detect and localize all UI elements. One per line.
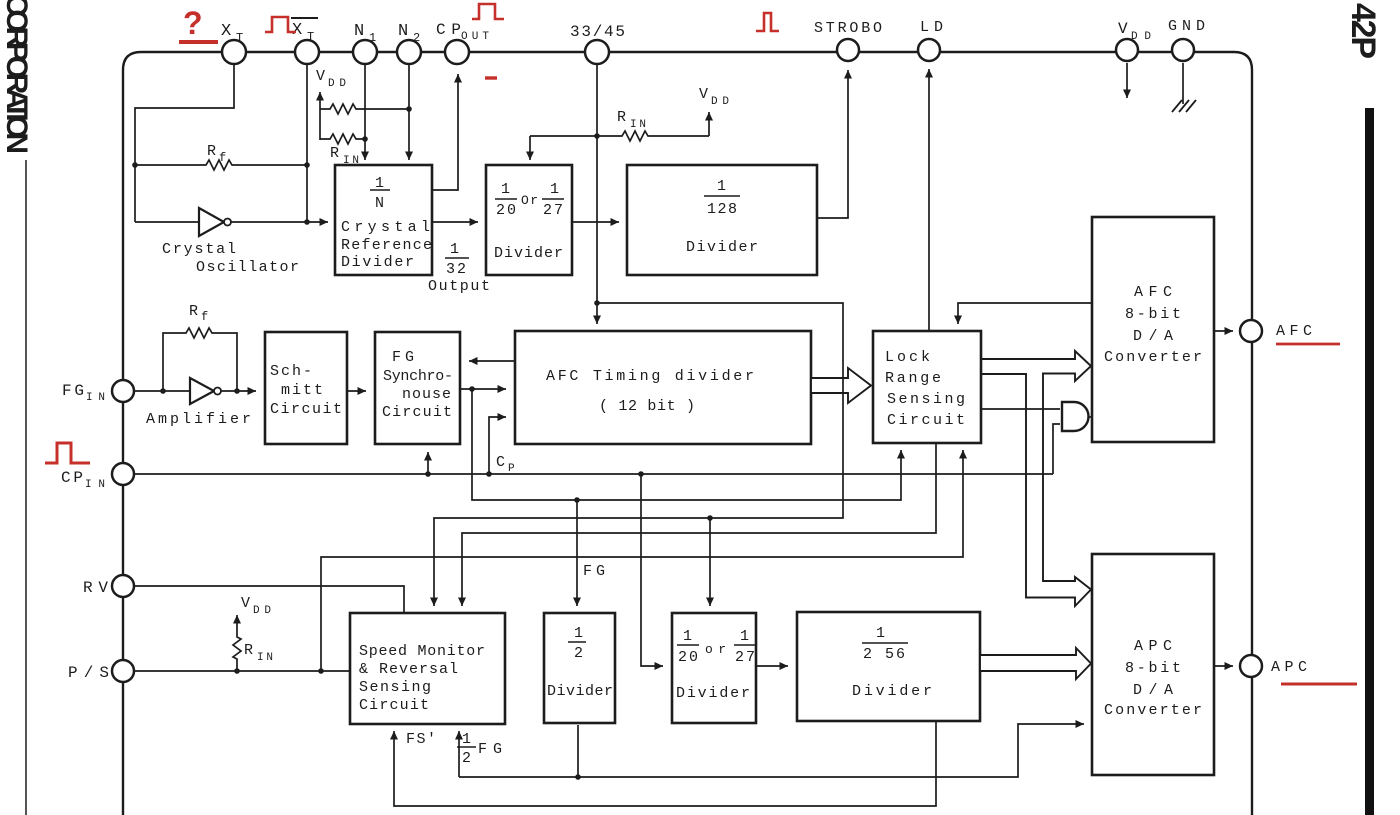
- svg-text:2: 2: [462, 750, 471, 767]
- bus arrow lock range to AFC D/A with branch bus down to APC D/A: [980, 351, 1091, 606]
- wire 1/2FG bus to APC D/A: [459, 724, 1084, 777]
- pin CPOUT: [445, 40, 469, 64]
- pin 33/45: [585, 40, 609, 64]
- svg-text:Crystal: Crystal: [162, 241, 236, 258]
- svg-text:128: 128: [707, 201, 737, 218]
- svg-text:X: X: [221, 22, 231, 41]
- wire CPIN bus: [134, 473, 1053, 475]
- wire 33/45 pin down to AFC timing divider: [596, 64, 598, 303]
- ground symbol at GND pin: [1172, 63, 1196, 112]
- IC package outline: [123, 52, 1252, 815]
- svg-text:nouse: nouse: [402, 386, 451, 403]
- svg-text:1: 1: [876, 625, 885, 642]
- svg-text:Range: Range: [885, 370, 941, 387]
- junction 33/45 / RIN rail: [594, 133, 600, 139]
- svg-text:20: 20: [678, 649, 698, 666]
- block 1/20 or 1/27 Divider (bottom): [672, 613, 756, 723]
- svg-text:N: N: [354, 22, 364, 41]
- svg-text:& Reversal: & Reversal: [359, 661, 458, 678]
- svg-text:( 12 bit ): ( 12 bit ): [599, 398, 695, 415]
- wire AND gate output to AFC D/A: [1089, 416, 1093, 418]
- wire XT pin to oscillator input node: [135, 64, 234, 222]
- block 1/2 Divider: [544, 613, 615, 723]
- VDD supply arrow near XTbar: [316, 68, 346, 140]
- red annotation dash near CPOUT: [485, 76, 497, 79]
- block 1/N Crystal Reference Divider: [335, 165, 432, 275]
- svg-text:?: ?: [183, 5, 203, 41]
- pin N2: [397, 40, 421, 64]
- svg-text:Oscillator: Oscillator: [196, 259, 299, 276]
- wire 1/N divider output to 1/20 divider: [432, 221, 478, 223]
- junction XTbar/oscillator output: [304, 219, 310, 225]
- wire CPIN branch into FG synchronouse bottom: [427, 452, 429, 474]
- svg-text:1: 1: [501, 181, 510, 198]
- block 1/256 Divider: [797, 612, 980, 721]
- svg-text:R: R: [207, 143, 216, 160]
- svg-text:8-bit: 8-bit: [1125, 660, 1181, 677]
- wire FG synchronouse to AFC timing divider: [460, 388, 506, 390]
- pin XTbar: [295, 40, 319, 64]
- svg-text:Divider: Divider: [341, 254, 414, 271]
- svg-text:Sensing: Sensing: [359, 679, 431, 696]
- junction P/S / RIN pull-up: [234, 668, 240, 674]
- pin APC: [1240, 655, 1262, 677]
- svg-text:Circuit: Circuit: [382, 404, 452, 421]
- wire RV pin to speed monitor: [134, 586, 404, 613]
- wire LD pin down to lock range circuit: [928, 69, 930, 331]
- block AFC 8-bit D/A Converter: [1092, 217, 1214, 442]
- wire 1/2 divider output (1/2 FG): [577, 725, 579, 777]
- pin N1: [353, 40, 377, 64]
- svg-text:R: R: [617, 109, 626, 126]
- svg-text:Divider: Divider: [686, 239, 758, 256]
- pin FGIN: [112, 380, 134, 402]
- svg-text:D/A: D/A: [1133, 682, 1173, 699]
- svg-text:T: T: [307, 30, 314, 44]
- red annotation underline below question mark: [179, 40, 218, 44]
- svg-text:AFC: AFC: [1276, 323, 1312, 340]
- svg-text:R: R: [330, 145, 339, 162]
- resistor Rf (oscillator feedback): [135, 143, 307, 170]
- svg-text:Converter: Converter: [1104, 349, 1202, 366]
- junction amplifier output/Rf right: [234, 388, 240, 394]
- svg-text:1: 1: [462, 731, 471, 748]
- pin XT: [222, 40, 246, 64]
- svg-text:Crystal: Crystal: [341, 219, 430, 236]
- page margin thin rule: [25, 160, 27, 815]
- wire FS' from 1/256 divider bottom to speed monitor: [394, 721, 936, 806]
- pin RV: [112, 575, 134, 597]
- svg-text:C: C: [496, 454, 505, 471]
- svg-text:Divider: Divider: [547, 683, 613, 700]
- label 1/2 FG: [457, 731, 502, 767]
- wire 1/20 divider to 1/256 divider: [756, 665, 788, 667]
- svg-text:R: R: [189, 303, 198, 320]
- junction RIN/N1: [362, 136, 368, 142]
- svg-text:f: f: [201, 310, 208, 324]
- AND gate G1: [1062, 402, 1089, 431]
- wire 1/20 divider to 1/128 divider: [572, 221, 619, 223]
- svg-text:Amplifier: Amplifier: [146, 411, 251, 428]
- svg-text:Or: Or: [521, 193, 538, 208]
- pin VDD: [1116, 39, 1138, 61]
- junction XTbar/Rf: [304, 162, 310, 168]
- wire lock range sensing to speed monitor: [462, 443, 936, 606]
- label 1/32 Output: [428, 241, 490, 295]
- svg-text:1: 1: [550, 181, 559, 198]
- svg-text:1: 1: [369, 31, 376, 45]
- pin P/S: [112, 660, 134, 682]
- svg-text:1: 1: [450, 241, 459, 258]
- svg-text:Synchro-: Synchro-: [383, 368, 453, 385]
- wire RIN rail into 1/20 divider top: [529, 136, 531, 160]
- svg-text:OUT: OUT: [461, 31, 489, 43]
- svg-text:1: 1: [740, 628, 749, 645]
- svg-text:27: 27: [735, 649, 755, 666]
- wire APC D/A output to APC pin: [1214, 665, 1233, 667]
- junction select bus / 1/20 divider branch: [707, 515, 713, 521]
- block 1/20 or 1/27 Divider (top): [486, 165, 572, 275]
- pin CPIN: [112, 463, 134, 485]
- svg-text:N: N: [398, 22, 408, 41]
- svg-text:Divider: Divider: [676, 685, 750, 702]
- svg-text:27: 27: [543, 202, 563, 219]
- red annotation underline at AFC pin: [1276, 343, 1340, 346]
- red annotation pulse waveform at STROBO: [756, 13, 779, 31]
- svg-text:Circuit: Circuit: [359, 697, 429, 714]
- svg-text:Sensing: Sensing: [887, 391, 965, 408]
- red annotation pulse waveform above CPOUT: [472, 4, 504, 19]
- junction FG output node: [469, 386, 475, 392]
- wire select branch down into 1/20 or 1/27 divider: [709, 518, 711, 606]
- wire FG branch down into 1/2 divider: [576, 500, 578, 606]
- wire 1/128 output up to STROBO pin: [817, 70, 848, 218]
- svg-text:V: V: [699, 86, 708, 103]
- wire CPIN riser to AND gate input 2: [1053, 424, 1060, 474]
- red annotation underline at APC pin: [1281, 683, 1357, 686]
- wire Schmitt to FG synchronouse: [347, 390, 366, 392]
- svg-text:f: f: [219, 151, 226, 165]
- svg-text:Converter: Converter: [1104, 702, 1202, 719]
- wire AFC timing divider to FG synchronouse: [469, 360, 515, 362]
- resistor RIN pull-up on P/S: [233, 615, 273, 671]
- svg-text:Sch-: Sch-: [270, 363, 312, 380]
- wire 1/2FG branch up into speed monitor: [458, 731, 460, 777]
- red annotation pulse waveform at XTbar: [265, 17, 296, 32]
- svg-text:R: R: [244, 642, 253, 659]
- svg-text:V: V: [316, 68, 325, 85]
- wire lock range to AND gate input 1: [981, 408, 1060, 410]
- VDD supply arrow on 33/45 RIN rail: [699, 86, 729, 136]
- wire AFC D/A output to AFC pin: [1214, 330, 1233, 332]
- svg-text:Divider: Divider: [494, 245, 563, 262]
- wire CPIN branch down into 1/20 or 1/27 divider: [641, 474, 663, 666]
- svg-text:APC: APC: [1271, 659, 1307, 676]
- pin LD: [918, 39, 940, 61]
- svg-text:CORPORATION: CORPORATION: [0, 0, 33, 154]
- block FG Synchronouse Circuit: [375, 332, 460, 444]
- wire 33/45 select bus to speed monitor: [434, 303, 843, 606]
- wire CPIN riser into AFC timing divider: [489, 417, 506, 474]
- pin AFC: [1240, 320, 1262, 342]
- svg-text:2 56: 2 56: [863, 646, 905, 663]
- svg-text:V: V: [241, 595, 250, 612]
- svg-text:T: T: [236, 31, 243, 45]
- junction P/S / bus riser: [318, 668, 324, 674]
- amplifier A1: [190, 378, 256, 404]
- block 1/128 Divider: [627, 165, 817, 275]
- junction CPIN/FG synchronouse branch: [425, 471, 431, 477]
- inverter U1 crystal oscillator: [135, 208, 328, 236]
- bus arrow AFC timing divider to lock range sensing: [811, 368, 871, 403]
- svg-text:1: 1: [717, 178, 726, 195]
- svg-text:Speed Monitor: Speed Monitor: [359, 643, 485, 660]
- svg-text:2: 2: [413, 31, 420, 45]
- svg-text:2: 2: [574, 645, 583, 662]
- block APC 8-bit D/A Converter: [1092, 554, 1214, 775]
- svg-text:42P: 42P: [1344, 3, 1382, 59]
- svg-text:APC: APC: [1134, 638, 1172, 655]
- block Speed Monitor & Reversal Sensing Circuit: [350, 613, 505, 724]
- svg-text:X: X: [292, 21, 302, 40]
- junction FG bus / 1/2 divider branch: [574, 497, 580, 503]
- wire P/S bus to lock range sensing: [321, 450, 963, 671]
- svg-text:mitt: mitt: [281, 382, 323, 399]
- bus arrow 1/256 divider to APC D/A: [980, 648, 1091, 679]
- svg-text:AFC: AFC: [1134, 284, 1172, 301]
- junction CPIN/AFC timing riser: [486, 471, 492, 477]
- svg-text:Reference: Reference: [341, 237, 432, 254]
- svg-text:Divider: Divider: [852, 683, 932, 700]
- wire P/S pin to speed monitor: [134, 670, 350, 672]
- red annotation pulse waveform at CPIN: [45, 443, 90, 463]
- wire FGIN pin to amplifier: [134, 390, 199, 392]
- pin GND: [1172, 39, 1194, 61]
- wire FG node bus to lock range sensing: [472, 391, 901, 500]
- resistor RIN pull-up on 33/45 line: [530, 109, 709, 141]
- junction 33/45 / speed select branch: [594, 300, 600, 306]
- svg-text:Circuit: Circuit: [887, 412, 965, 429]
- junction CPIN/divider branch: [638, 471, 644, 477]
- svg-text:V: V: [1118, 20, 1128, 38]
- resistor Rf (amplifier feedback): [163, 303, 237, 391]
- svg-text:FS': FS': [406, 731, 436, 748]
- svg-text:N: N: [375, 195, 384, 212]
- svg-text:20: 20: [496, 202, 516, 219]
- wire N2 pin into divider: [408, 64, 410, 160]
- svg-text:32: 32: [446, 261, 466, 278]
- wire CPOUT from divider up to pin: [432, 74, 458, 190]
- page margin thick bar: [1365, 108, 1374, 815]
- svg-text:Circuit: Circuit: [270, 401, 342, 418]
- pin STROBO: [837, 39, 859, 61]
- resistor RIN pull-up to N2: [320, 104, 409, 114]
- svg-text:P/S: P/S: [68, 664, 109, 682]
- junction FGIN/Rf left: [160, 388, 166, 394]
- junction XT/Rf: [132, 162, 138, 168]
- svg-text:1: 1: [683, 628, 692, 645]
- pin XTbar label: [291, 18, 318, 44]
- junction RIN/N2: [406, 106, 412, 112]
- wire N1 pin into divider: [364, 64, 366, 160]
- junction 1/2FG bus: [575, 774, 581, 780]
- block Lock Range Sensing Circuit: [873, 331, 981, 443]
- svg-text:8-bit: 8-bit: [1125, 306, 1181, 323]
- VDD pin supply stub: [1126, 63, 1128, 98]
- resistor RIN pull-up to N1: [320, 134, 365, 167]
- block Schmitt Circuit: [265, 332, 347, 444]
- wire XTbar pin down to oscillator output node: [306, 64, 308, 222]
- svg-text:D/A: D/A: [1133, 328, 1173, 345]
- svg-text:33/45: 33/45: [570, 23, 625, 41]
- svg-text:GND: GND: [1168, 18, 1205, 35]
- block AFC Timing divider: [515, 331, 811, 444]
- wire AFC D/A feedback to lock range sensing top: [958, 303, 1092, 324]
- svg-text:1: 1: [574, 625, 583, 642]
